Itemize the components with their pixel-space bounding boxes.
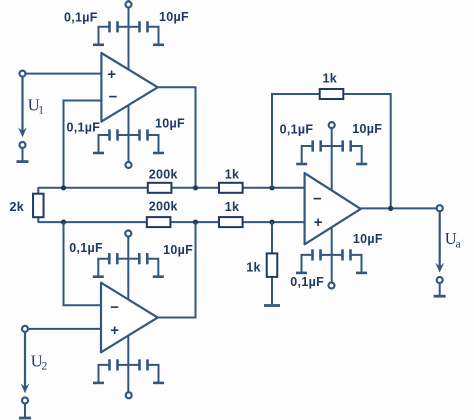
- wire U2 +input: [25, 328, 101, 330]
- svg-text:200k: 200k: [149, 199, 178, 213]
- svg-text:1k: 1k: [225, 200, 240, 214]
- capacitor C4b (10uF): [129, 359, 159, 383]
- resistor R2 (200k): [148, 168, 178, 193]
- ground (C5a): [296, 163, 307, 166]
- capacitor C3b (10uF): [128, 253, 158, 277]
- terminal V- (op-amp U3): [329, 283, 335, 289]
- wire V- rail op-amp U1: [128, 105, 130, 162]
- node E (U2 out): [193, 220, 198, 225]
- node C (fb tap upper): [269, 185, 274, 190]
- op-amp U2: [101, 283, 158, 353]
- ground (U2): [19, 417, 31, 420]
- resistor R1 (2k): [10, 194, 44, 218]
- ground (C4b): [153, 382, 164, 385]
- node F (1k gnd tap): [269, 220, 274, 225]
- label Ua: [445, 229, 461, 251]
- capacitor C3a (0.1uF): [98, 253, 128, 277]
- svg-text:0,1µF: 0,1µF: [64, 10, 98, 24]
- label U2: [31, 351, 48, 372]
- wire feedback loop U3: [272, 94, 391, 208]
- svg-text:0,1µF: 0,1µF: [69, 241, 103, 255]
- ground (R7 ground): [264, 304, 280, 307]
- wire Ua arrow: [435, 211, 444, 272]
- ground (C2a): [93, 152, 104, 155]
- terminal V- (op-amp U2): [126, 392, 132, 398]
- svg-text:10µF: 10µF: [155, 117, 185, 131]
- svg-text:0,1µF: 0,1µF: [290, 275, 324, 289]
- wire U2 ground stub: [24, 404, 26, 418]
- svg-text:1k: 1k: [323, 72, 338, 86]
- wire lower input row: [38, 221, 304, 223]
- svg-text:−: −: [109, 89, 118, 106]
- wire U2 -input to node D: [64, 222, 102, 305]
- node D (R4 left / U2 fb): [61, 220, 66, 225]
- svg-text:10µF: 10µF: [352, 122, 382, 136]
- terminal V+ (op-amp U3): [329, 122, 335, 128]
- ground (C6a): [296, 272, 307, 275]
- node B (U1 out): [193, 185, 198, 190]
- capacitor C1a (0.1uF): [99, 21, 129, 45]
- wire V- rail op-amp U3: [331, 227, 333, 283]
- resistor R5 (1k): [219, 200, 243, 227]
- svg-text:1k: 1k: [246, 261, 261, 275]
- capacitor C4a (0.1uF): [99, 359, 129, 383]
- wire 1k to ground column: [271, 222, 273, 304]
- ground (C6b): [356, 272, 367, 275]
- svg-text:1k: 1k: [225, 168, 240, 182]
- wire op U1 output: [158, 87, 196, 188]
- wire U1 -input to node A: [64, 101, 102, 188]
- resistor R7 (1k): [246, 253, 277, 277]
- terminal V+ (op-amp U2): [125, 231, 131, 237]
- svg-text:+: +: [314, 214, 323, 231]
- ground (C2b): [153, 152, 164, 155]
- wire V+ rail op-amp U3: [331, 128, 333, 190]
- wire V+ supply stub op U1: [127, 0, 129, 2]
- resistor R6 (1k): [320, 72, 344, 99]
- terminal U1 lower: [20, 142, 26, 148]
- wire U1 +input: [23, 73, 102, 75]
- node G (output fb): [388, 206, 393, 211]
- wire op U2 output: [158, 222, 196, 317]
- op-amp U3: [305, 173, 361, 244]
- ground (C1a): [93, 43, 104, 46]
- capacitor C1b (10uF): [129, 21, 159, 45]
- svg-text:+: +: [107, 66, 116, 83]
- terminal input U2: [22, 326, 28, 332]
- label U1: [28, 96, 45, 117]
- svg-text:+: +: [110, 322, 119, 339]
- ground (C3b): [153, 275, 164, 278]
- ground (C5b): [356, 163, 367, 166]
- resistor R3 (1k): [219, 168, 243, 193]
- svg-text:−: −: [110, 299, 119, 316]
- svg-text:10µF: 10µF: [159, 10, 189, 24]
- node A (R2 left / U1 fb): [61, 185, 66, 190]
- terminal V- (op-amp U1): [126, 162, 132, 168]
- ground (C4a): [93, 382, 104, 385]
- svg-text:2: 2: [42, 360, 48, 372]
- terminal output Ua: [437, 205, 443, 211]
- terminal V+ (op-amp U1): [126, 2, 132, 8]
- wire op U3 output: [361, 207, 437, 209]
- svg-text:200k: 200k: [149, 168, 178, 182]
- wire U2 arrow: [21, 332, 30, 393]
- capacitor C6a (0.1uF): [302, 249, 332, 273]
- wire Ua ground stub: [439, 283, 441, 295]
- terminal Ua lower: [437, 277, 443, 283]
- svg-text:2k: 2k: [10, 200, 25, 214]
- capacitor C5a (0.1uF): [302, 140, 332, 164]
- wire U1 ground stub: [22, 148, 24, 161]
- resistor R4 (200k): [147, 199, 178, 227]
- terminal U2 lower: [22, 398, 28, 404]
- op-amp U1: [101, 53, 157, 122]
- ground (C1b): [153, 43, 164, 46]
- wire V+ rail to op-amp U1: [128, 8, 130, 70]
- capacitor C2b (10uF): [129, 129, 159, 153]
- wire V+ rail op-amp U2: [127, 237, 129, 301]
- svg-text:a: a: [456, 239, 461, 251]
- wire U1 arrow: [18, 77, 27, 138]
- wire V- rail op-amp U2: [127, 336, 129, 393]
- svg-text:1: 1: [38, 105, 44, 117]
- capacitor C2a (0.1uF): [99, 129, 129, 153]
- svg-text:10µF: 10µF: [353, 232, 383, 246]
- wire upper input row: [38, 187, 304, 189]
- capacitor C5b (10uF): [332, 140, 362, 164]
- wire 2k connecting stubs: [37, 187, 39, 223]
- svg-text:0,1µF: 0,1µF: [67, 121, 101, 135]
- ground (Ua): [434, 295, 446, 298]
- ground (U1): [17, 160, 29, 163]
- capacitor C6b (10uF): [332, 249, 362, 273]
- terminal input U1: [20, 71, 26, 77]
- svg-text:−: −: [313, 190, 322, 207]
- svg-text:0,1µF: 0,1µF: [280, 123, 314, 137]
- ground (C3a): [93, 275, 104, 278]
- svg-text:10µF: 10µF: [163, 243, 193, 257]
